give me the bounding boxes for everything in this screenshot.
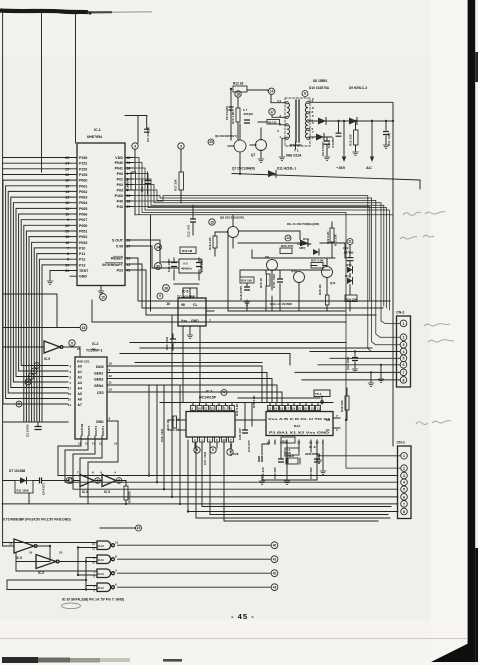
svg-text:R36 5.6K: R36 5.6K — [252, 394, 256, 408]
svg-text:IC-2: IC-2 — [92, 342, 99, 346]
svg-text:30: 30 — [65, 263, 69, 267]
svg-text:IC-9: IC-9 — [104, 490, 110, 494]
svg-text:D9~11 2SC732(BL)(6R): D9~11 2SC732(BL)(6R) — [287, 222, 319, 226]
svg-text:17: 17 — [270, 110, 274, 114]
svg-text:4: 4 — [30, 375, 32, 379]
svg-text:R24 100: R24 100 — [241, 279, 252, 283]
svg-text:R18 1M: R18 1M — [182, 249, 193, 253]
svg-text:MC14015P: MC14015P — [199, 396, 217, 400]
svg-text:X-2: X-2 — [183, 262, 188, 266]
svg-text:C15 100P: C15 100P — [200, 259, 204, 272]
svg-text:P11: P11 — [79, 252, 85, 256]
svg-text:15: 15 — [65, 184, 69, 188]
svg-text:IC-9: IC-9 — [38, 571, 44, 575]
svg-text:10: 10 — [114, 442, 118, 446]
svg-text:8: 8 — [403, 378, 405, 382]
svg-text:12: 12 — [109, 374, 113, 378]
svg-text:21: 21 — [298, 407, 302, 411]
svg-text:14: 14 — [175, 428, 179, 432]
svg-text:D8 155B1: D8 155B1 — [313, 79, 328, 83]
svg-text:P040: P040 — [115, 161, 123, 165]
svg-text:Vss: Vss — [181, 319, 187, 323]
svg-text:IC-5: IC-5 — [182, 290, 189, 294]
svg-text:TEST: TEST — [79, 269, 89, 273]
svg-text:P060: P060 — [79, 179, 87, 183]
svg-text:30: 30 — [209, 140, 213, 144]
svg-text:6: 6 — [67, 252, 69, 256]
svg-text:GEN3: GEN3 — [94, 378, 103, 382]
svg-text:22: 22 — [65, 224, 69, 228]
svg-text:19: 19 — [109, 362, 113, 366]
svg-text:24: 24 — [65, 162, 69, 166]
svg-text:31: 31 — [127, 257, 131, 261]
svg-text:19: 19 — [65, 235, 69, 239]
svg-text:5: 5 — [403, 357, 405, 361]
svg-text:1: 1 — [336, 428, 338, 432]
svg-text:Q8 2SC1815(GR): Q8 2SC1815(GR) — [220, 216, 244, 220]
svg-text:6.4MHz: 6.4MHz — [284, 454, 295, 458]
svg-text:RESET: RESET — [111, 257, 124, 261]
svg-text:R25 1K: R25 1K — [259, 277, 263, 288]
svg-text:GRE7803A: GRE7803A — [305, 452, 321, 456]
svg-text:AC: AC — [366, 165, 372, 170]
svg-text:R32 5.6K: R32 5.6K — [235, 402, 239, 416]
svg-text:43: 43 — [273, 585, 277, 589]
svg-text:34: 34 — [156, 245, 160, 249]
svg-text:IC-10: IC-10 — [98, 545, 105, 548]
svg-text:P050: P050 — [79, 224, 87, 228]
svg-text:A5: A5 — [78, 392, 82, 396]
svg-text:IC -8: IC -8 — [309, 445, 316, 449]
svg-text:A6: A6 — [78, 398, 82, 402]
svg-text:17: 17 — [286, 407, 290, 411]
svg-text:- 45 -: - 45 - — [231, 612, 255, 621]
svg-text:8: 8 — [71, 341, 73, 345]
svg-text:16: 16 — [68, 392, 72, 396]
svg-text:IC-9: IC-9 — [16, 556, 22, 560]
svg-text:5: 5 — [403, 488, 405, 492]
svg-text:P066: P066 — [79, 213, 87, 217]
svg-text:X-1: X-1 — [286, 448, 291, 452]
svg-text:3: 3 — [33, 369, 35, 373]
svg-text:P067: P067 — [79, 218, 87, 222]
svg-text:C23 .01M: C23 .01M — [165, 336, 169, 350]
svg-text:18: 18 — [65, 241, 69, 245]
svg-text:D11 HZ16L-1: D11 HZ16L-1 — [277, 167, 296, 171]
svg-text:14: 14 — [286, 236, 290, 240]
svg-text:2: 2 — [118, 479, 120, 483]
svg-text:P064: P064 — [79, 201, 87, 205]
svg-text:38: 38 — [127, 167, 131, 171]
svg-text:6: 6 — [403, 363, 405, 367]
svg-text:19: 19 — [92, 347, 96, 351]
svg-text:P152: P152 — [79, 167, 87, 171]
svg-text:23: 23 — [65, 156, 69, 160]
svg-text:16: 16 — [292, 407, 296, 411]
svg-text:6HE O21A: 6HE O21A — [286, 154, 302, 158]
svg-text:DT 1S1588: DT 1S1588 — [9, 469, 25, 473]
svg-text:P062: P062 — [79, 190, 87, 194]
svg-text:18: 18 — [280, 407, 284, 411]
svg-text:14: 14 — [29, 551, 33, 555]
svg-text:Q6 2SC1815(GY): Q6 2SC1815(GY) — [215, 134, 237, 138]
svg-text:INTERRUPT: INTERRUPT — [102, 263, 123, 267]
svg-text:17: 17 — [68, 387, 72, 391]
svg-text:12: 12 — [65, 201, 69, 205]
svg-text:P00: P00 — [117, 172, 123, 176]
svg-text:40: 40 — [273, 543, 277, 547]
svg-text:DOUT1: DOUT1 — [101, 426, 105, 436]
svg-text:16: 16 — [166, 302, 170, 306]
svg-text:R11 100K: R11 100K — [17, 489, 29, 493]
svg-text:R13 1.8K: R13 1.8K — [231, 110, 235, 124]
svg-text:GEN4: GEN4 — [94, 384, 103, 388]
svg-text:7: 7 — [229, 450, 231, 454]
svg-text:P153: P153 — [79, 173, 87, 177]
svg-text:.047(M): .047(M) — [343, 251, 353, 255]
svg-text:8: 8 — [304, 92, 306, 96]
svg-text:10: 10 — [297, 441, 301, 445]
svg-text:C24 100P: C24 100P — [346, 357, 350, 370]
svg-text:12: 12 — [99, 442, 103, 446]
svg-text:34: 34 — [127, 161, 131, 165]
svg-text:P151: P151 — [79, 162, 87, 166]
svg-text:1: 1 — [127, 172, 129, 176]
svg-text:IC-1: IC-1 — [94, 128, 101, 132]
svg-text:21: 21 — [65, 269, 69, 273]
svg-text:4: 4 — [134, 144, 136, 148]
svg-text:19: 19 — [274, 407, 278, 411]
svg-text:TC-4024BP: TC-4024BP — [177, 295, 196, 299]
svg-text:GND: GND — [191, 319, 199, 323]
svg-text:P160: P160 — [115, 194, 123, 198]
svg-text:12: 12 — [268, 407, 272, 411]
svg-text:16: 16 — [78, 442, 82, 446]
svg-text:X IN: X IN — [116, 245, 123, 249]
svg-text:27: 27 — [127, 245, 131, 249]
svg-text:R19 2.2K: R19 2.2K — [208, 236, 212, 250]
svg-text:7: 7 — [67, 246, 69, 250]
svg-text:D12~14 1S1588: D12~14 1S1588 — [270, 302, 292, 306]
svg-text:P40: P40 — [117, 200, 123, 204]
svg-text:R14 35: R14 35 — [268, 120, 277, 124]
svg-text:−26V: −26V — [336, 165, 346, 170]
svg-text:C3 1/50V: C3 1/50V — [26, 424, 30, 437]
svg-text:C5 .047(M): C5 .047(M) — [146, 127, 150, 142]
svg-text:14: 14 — [270, 90, 274, 94]
svg-text:13: 13 — [9, 542, 13, 546]
svg-text:10: 10 — [65, 213, 69, 217]
svg-text:2: 2 — [403, 336, 405, 340]
svg-text:98: 98 — [181, 303, 185, 307]
svg-text:C30 27P: C30 27P — [247, 440, 251, 452]
svg-text:C32 22P: C32 22P — [273, 467, 277, 479]
svg-text:7: 7 — [336, 414, 338, 418]
svg-text:20: 20 — [77, 347, 81, 351]
svg-text:P150: P150 — [79, 156, 87, 160]
svg-text:12: 12 — [204, 407, 208, 411]
svg-text:P10: P10 — [79, 246, 85, 250]
svg-text:T 1: T 1 — [294, 149, 299, 153]
svg-text:42: 42 — [273, 571, 277, 575]
svg-text:BA2: BA2 — [294, 424, 300, 428]
svg-text:7: 7 — [209, 319, 211, 323]
svg-text:5: 5 — [27, 380, 29, 384]
svg-text:A4: A4 — [78, 387, 82, 391]
svg-text:41: 41 — [273, 557, 277, 561]
svg-text:41: 41 — [127, 269, 131, 273]
svg-text:R17 33K: R17 33K — [174, 178, 178, 191]
svg-text:4: 4 — [403, 350, 405, 354]
svg-text:C9 470(W): C9 470(W) — [321, 141, 325, 156]
svg-text:DOUT2: DOUT2 — [94, 426, 98, 436]
svg-text:26: 26 — [127, 239, 131, 243]
svg-text:DIN2: DIN2 — [96, 365, 104, 369]
svg-text:4.7/35V: 4.7/35V — [331, 138, 335, 148]
svg-text:A7: A7 — [78, 403, 82, 407]
svg-text:7: 7 — [403, 502, 405, 506]
svg-text:R16 35K: R16 35K — [126, 178, 130, 191]
svg-text:R29 33K: R29 33K — [346, 297, 357, 301]
svg-text:3: 3 — [403, 474, 405, 478]
svg-text:D13: D13 — [346, 263, 352, 267]
svg-text:C29 10P: C29 10P — [238, 428, 242, 440]
svg-text:IC-9: IC-9 — [44, 357, 50, 361]
svg-text:5: 5 — [223, 391, 225, 395]
svg-text:11: 11 — [65, 207, 69, 211]
svg-text:C28: C28 — [233, 452, 239, 456]
svg-text:C6 47/16V: C6 47/16V — [225, 106, 229, 120]
svg-text:TP-1: TP-1 — [315, 392, 322, 396]
svg-text:11: 11 — [317, 407, 320, 411]
svg-text:4: 4 — [403, 481, 405, 485]
svg-text:15: 15 — [267, 441, 271, 445]
svg-text:Q9: Q9 — [265, 255, 269, 259]
svg-text:IC-7: IC-7 — [206, 390, 213, 394]
svg-text:IC-10 SN74LS38( Pin 14: 5V Pi: IC-10 SN74LS38( Pin 14: 5V Pin 7: GND) — [62, 598, 124, 602]
svg-text:6: 6 — [212, 448, 214, 452]
svg-text:6: 6 — [403, 495, 405, 499]
svg-text:20: 20 — [304, 407, 308, 411]
svg-text:19: 19 — [137, 526, 141, 530]
svg-text:15: 15 — [59, 551, 63, 555]
svg-text:22: 22 — [316, 441, 320, 445]
svg-text:R30 1K: R30 1K — [166, 419, 170, 430]
svg-text:C22: C22 — [343, 246, 349, 250]
svg-text:28: 28 — [127, 200, 131, 204]
svg-text:C13 .001: C13 .001 — [187, 224, 191, 237]
svg-text:R22 2.2K: R22 2.2K — [326, 230, 330, 244]
svg-text:13: 13 — [127, 194, 131, 198]
svg-text:42: 42 — [127, 156, 131, 160]
svg-text:P03: P03 — [117, 189, 123, 193]
svg-text:P01: P01 — [117, 178, 123, 182]
svg-text:P43: P43 — [117, 205, 123, 209]
svg-text:C26 .01M: C26 .01M — [160, 428, 164, 442]
svg-text:3: 3 — [403, 343, 405, 347]
svg-text:D12: D12 — [303, 237, 309, 241]
svg-text:2: 2 — [36, 364, 38, 368]
svg-text:P063: P063 — [79, 196, 87, 200]
svg-text:TC-1 22P: TC-1 22P — [261, 467, 265, 480]
svg-text:9: 9 — [67, 218, 69, 222]
svg-text:R34 10K: R34 10K — [128, 490, 132, 503]
svg-text:16: 16 — [223, 438, 227, 442]
svg-text:Q11: Q11 — [330, 281, 336, 285]
svg-text:A1: A1 — [78, 370, 82, 374]
svg-text:P052: P052 — [79, 235, 87, 239]
svg-text:14: 14 — [68, 403, 72, 407]
svg-text:15: 15 — [68, 398, 72, 402]
svg-text:Vss A B C D CL H TO X3: Vss A B C D CL H TO X3 — [268, 417, 330, 421]
svg-text:32: 32 — [127, 263, 131, 267]
svg-text:13: 13 — [65, 196, 69, 200]
svg-text:38: 38 — [164, 286, 168, 290]
svg-text:GND: GND — [96, 420, 104, 424]
svg-text:10: 10 — [198, 407, 202, 411]
svg-text:P051: P051 — [79, 230, 87, 234]
svg-text:6HE7954: 6HE7954 — [87, 135, 102, 139]
svg-text:V DD: V DD — [115, 156, 123, 160]
svg-text:R39: R39 — [282, 440, 288, 444]
svg-text:R23 23K: R23 23K — [334, 233, 338, 246]
svg-text:18: 18 — [236, 92, 240, 96]
svg-text:DOUT3: DOUT3 — [87, 426, 91, 436]
svg-text:CN-2: CN-2 — [396, 311, 404, 315]
svg-text:11: 11 — [348, 240, 352, 244]
svg-text:10: 10 — [101, 295, 105, 299]
svg-text:R27 3.3K: R27 3.3K — [311, 259, 325, 263]
svg-text:A0: A0 — [78, 365, 82, 369]
svg-text:5: 5 — [196, 448, 198, 452]
svg-text:14: 14 — [65, 190, 69, 194]
svg-text:CL: CL — [193, 303, 198, 307]
svg-text:30: 30 — [156, 264, 160, 268]
svg-text:10: 10 — [309, 441, 313, 445]
svg-text:4: 4 — [68, 479, 70, 483]
svg-text:Q7: Q7 — [251, 153, 255, 157]
svg-text:P13: P13 — [79, 263, 85, 267]
svg-text:IC-10: IC-10 — [98, 587, 105, 590]
svg-text:S4: S4 — [326, 428, 330, 432]
svg-text:IC-9: IC-9 — [82, 490, 88, 494]
svg-text:P23: P23 — [117, 269, 123, 273]
svg-text:CE2: CE2 — [97, 391, 104, 395]
svg-text:2: 2 — [403, 467, 405, 471]
svg-text:IC-10: IC-10 — [98, 573, 105, 576]
svg-text:20: 20 — [65, 230, 69, 234]
svg-text:16: 16 — [65, 179, 69, 183]
svg-text:400KHz: 400KHz — [181, 267, 192, 271]
svg-text:R12 33: R12 33 — [233, 82, 244, 86]
svg-text:3: 3 — [180, 144, 182, 148]
svg-text:13: 13 — [211, 407, 215, 411]
svg-text:Q7 2SC1384(R): Q7 2SC1384(R) — [232, 167, 255, 171]
svg-text:6: 6 — [18, 402, 20, 406]
svg-text:CTO .01M: CTO .01M — [272, 274, 276, 288]
svg-text:Q10: Q10 — [291, 269, 297, 273]
svg-text:D9 HZ9LC-3: D9 HZ9LC-3 — [349, 86, 367, 90]
svg-text:P12: P12 — [79, 258, 85, 262]
svg-text:8: 8 — [403, 510, 405, 514]
svg-text:C12 .001: C12 .001 — [140, 179, 144, 192]
svg-text:P1 BA1 X1 X2 Vss GND: P1 BA1 X1 X2 Vss GND — [269, 431, 330, 435]
svg-text:GEN2: GEN2 — [94, 372, 103, 376]
svg-text:C11 .1(M): C11 .1(M) — [387, 133, 391, 146]
svg-text:R/W CE1: R/W CE1 — [77, 360, 90, 364]
svg-text:.001(M): .001(M) — [243, 112, 253, 116]
svg-text:37: 37 — [127, 205, 131, 209]
svg-text:15: 15 — [210, 220, 214, 224]
svg-text:C27 .01M: C27 .01M — [203, 451, 207, 465]
svg-text:P02: P02 — [117, 183, 123, 187]
svg-text:GND: GND — [79, 275, 87, 279]
svg-text:15: 15 — [175, 418, 179, 422]
svg-text:15: 15 — [85, 442, 89, 446]
svg-text:IC-10: IC-10 — [98, 559, 105, 562]
svg-text:18P(: 18P( — [299, 246, 305, 250]
svg-text:P053: P053 — [79, 241, 87, 245]
svg-text:C4 47(T): C4 47(T) — [42, 483, 46, 495]
svg-text:1: 1 — [403, 322, 405, 326]
svg-text:7: 7 — [403, 371, 405, 375]
svg-text:D10 1S2076A: D10 1S2076A — [309, 86, 330, 90]
svg-text:DOUT4B: DOUT4B — [80, 423, 84, 436]
svg-text:18: 18 — [82, 326, 86, 330]
svg-text:13: 13 — [311, 407, 315, 411]
svg-text:D14: D14 — [345, 274, 351, 278]
svg-text:A2: A2 — [78, 376, 82, 380]
svg-text:P065: P065 — [79, 207, 87, 211]
svg-text:R26 470(: R26 470( — [281, 244, 293, 248]
svg-text:13: 13 — [109, 388, 113, 392]
svg-text:R28 1M: R28 1M — [318, 284, 322, 295]
svg-text:9: 9 — [159, 294, 161, 298]
svg-text:1: 1 — [403, 454, 405, 458]
svg-text:R38 22K: R38 22K — [340, 399, 344, 412]
svg-text:A3: A3 — [78, 381, 82, 385]
svg-text:P061: P061 — [79, 184, 87, 188]
svg-text:5: 5 — [67, 258, 69, 262]
svg-text:C14 100P: C14 100P — [167, 259, 171, 272]
svg-text:R15 10K: R15 10K — [349, 133, 353, 146]
svg-text:26: 26 — [65, 173, 69, 177]
svg-text:C18 47/6V: C18 47/6V — [239, 286, 243, 300]
svg-text:P041: P041 — [115, 167, 123, 171]
svg-text:3: 3 — [97, 479, 99, 483]
svg-text:S OUT: S OUT — [112, 239, 124, 243]
svg-text:CN-1: CN-1 — [397, 441, 405, 445]
svg-text:11: 11 — [109, 381, 113, 385]
svg-text:11: 11 — [115, 541, 119, 545]
svg-text:14: 14 — [92, 442, 96, 446]
svg-text:C33 56P: C33 56P — [309, 467, 313, 479]
svg-text:25: 25 — [65, 167, 69, 171]
svg-text:9.TC4069UBP (Pin14:5V Pin1:5V: 9.TC4069UBP (Pin14:5V Pin1:5V Pin8:GND) — [3, 518, 71, 522]
